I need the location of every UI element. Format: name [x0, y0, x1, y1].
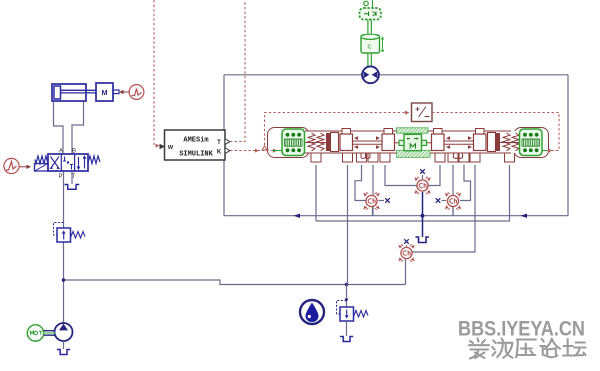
wire valve drop H2 right end — [509, 165, 511, 221]
servo valve port tab 3 — [357, 150, 367, 162]
servo valve spool rod right — [444, 141, 474, 144]
valve solenoid left — [35, 164, 49, 172]
wire valve drop to middle chamber right — [428, 165, 440, 186]
shaft rod lower — [368, 53, 371, 67]
tank T3 middle return — [416, 237, 430, 243]
svg-text:SIMULINK: SIMULINK — [179, 151, 213, 159]
servo valve spool land L2 — [382, 129, 395, 151]
servo valve spool rod left — [353, 141, 383, 144]
servo valve rod arrows left — [354, 136, 380, 149]
servo valve port tab 8 — [459, 150, 469, 162]
green arrow into left solenoid — [278, 149, 282, 153]
wire big loop top edge — [224, 74, 568, 76]
watermark BBS.IYEYA.CN — [458, 318, 585, 341]
watermark chinese char ai — [469, 339, 489, 359]
servo valve port tab 10 — [505, 150, 515, 162]
servo valve piston open left — [331, 133, 339, 152]
solenoid block right — [520, 129, 557, 156]
fluid properties icon — [300, 300, 324, 324]
junction pump branch — [62, 278, 66, 282]
chamber Ch1 closed port stub and x — [379, 198, 390, 203]
shaft MOT to pump — [44, 331, 55, 336]
junction relief branch — [345, 283, 349, 287]
arrow on return bus right — [521, 214, 528, 219]
signal dashed line from K output — [230, 149, 276, 153]
servo valve spring section right — [500, 133, 522, 151]
wire cylinder port B — [72, 101, 84, 154]
wire valve drop A1 — [315, 165, 317, 221]
watermark chinese char lun — [540, 339, 560, 357]
spool mass block M — [395, 134, 432, 150]
valve tank notch left — [361, 153, 370, 159]
svg-text:A: A — [59, 148, 63, 154]
svg-text:B: B — [72, 148, 76, 154]
valve spring right — [88, 156, 100, 164]
wire big loop right edge — [567, 75, 569, 216]
servo valve port tab 5 — [380, 150, 390, 162]
svg-text:M: M — [102, 90, 108, 97]
interface block AMESim-SIMULINK U1 — [165, 130, 226, 160]
servo valve port tab 9 — [470, 150, 480, 162]
servo valve left end cap — [268, 128, 310, 158]
force signal source F1 — [119, 85, 144, 100]
wire cylinder port A — [54, 101, 64, 154]
svg-text:P: P — [58, 174, 62, 180]
servo valve spool land R1 — [432, 129, 445, 151]
signal dashed line to W input — [154, 0, 160, 148]
servo valve spool land L1 — [340, 129, 353, 151]
relief valve RV1 — [54, 223, 86, 243]
chamber Ch1 left — [363, 192, 379, 209]
servo valve port tab 1 — [311, 150, 321, 162]
shaft rod upper — [368, 20, 371, 35]
servo valve spool land R2 — [474, 129, 487, 151]
watermark chinese char ye — [492, 339, 512, 358]
servo valve piston dark left — [326, 133, 331, 151]
chamber Ch2 middle — [414, 177, 430, 194]
junction chamber tank line — [421, 214, 425, 218]
svg-text:BBS.IYEYA.CN: BBS.IYEYA.CN — [458, 318, 585, 341]
wire middle chamber to tank — [422, 192, 424, 237]
tank T1 below valve — [65, 185, 80, 190]
servo valve right end cap — [514, 128, 549, 158]
hydraulic motor M2 — [362, 66, 379, 83]
svg-text:AMESim: AMESim — [183, 137, 208, 145]
svg-text:W: W — [168, 145, 174, 151]
servo valve port tab 2 — [343, 150, 353, 162]
wire valve drop to right chamber — [460, 165, 471, 201]
svg-text:K: K — [217, 150, 222, 156]
wire pump supply horizontal — [64, 280, 406, 285]
chamber Ch3 closed port stub and x — [436, 198, 446, 203]
servo valve rod arrows right — [446, 136, 472, 149]
wire chamber link bus — [373, 215, 454, 217]
servo valve port tab 7 — [448, 150, 458, 162]
servo valve port tab 4 — [368, 150, 378, 162]
input arrow W — [160, 144, 166, 149]
valve spring left — [35, 156, 48, 164]
wire bottom chamber to supply — [405, 259, 407, 285]
tank T2 below pump — [57, 350, 70, 355]
valve tank notch right — [454, 153, 463, 159]
servo valve main body — [301, 131, 515, 153]
valve signal source S1 — [4, 158, 31, 173]
rotary spring load K — [360, 0, 382, 20]
solenoid block left — [267, 129, 305, 156]
tank T4 below relief — [340, 337, 353, 342]
wall hatch above spool mass — [397, 128, 429, 133]
port label P — [58, 174, 62, 180]
motor prime mover MOT — [27, 325, 43, 341]
port label B — [72, 148, 76, 154]
directional valve 4/3 V1 — [48, 154, 88, 171]
wire valve drop through right chamber — [452, 165, 454, 216]
output port triangle K — [225, 148, 230, 154]
cylinder (hydraulic jack) — [52, 84, 96, 101]
port label T — [72, 174, 76, 180]
wire big loop left edge — [223, 75, 225, 216]
servo valve spring section left — [305, 133, 327, 151]
signal dashed line from T output — [230, 0, 245, 142]
chamber Ch4 closed port stub and x — [404, 239, 409, 246]
pump P1 — [55, 323, 73, 349]
wire valve drop to middle chamber left — [385, 165, 417, 186]
relief valve RV2 — [337, 285, 369, 337]
servo valve port tab 6 — [435, 150, 445, 162]
signal junction tee — [262, 146, 267, 150]
output port triangle T — [225, 139, 230, 145]
signal dashed branch up — [265, 111, 410, 145]
watermark chinese char ya — [516, 340, 536, 358]
chamber Ch3 right — [445, 192, 461, 209]
wire valve P line to pump — [63, 171, 65, 323]
wire return bus right — [453, 207, 568, 216]
wire valve T to tank — [71, 171, 73, 184]
watermark chinese char tan — [563, 339, 585, 356]
svg-text:T: T — [217, 140, 221, 146]
svg-text:T: T — [72, 174, 76, 180]
chamber Ch2 closed port stub and x — [420, 169, 425, 179]
sign inverter block +/- — [412, 103, 433, 122]
wire valve drop to left chamber — [355, 165, 366, 201]
arrow on return bus left — [294, 214, 301, 219]
port label A — [59, 148, 63, 154]
mass M1 on rod — [96, 83, 119, 101]
green arrow into right solenoid — [542, 149, 546, 153]
wire lower loop H2 — [316, 220, 510, 222]
servo valve piston open right — [488, 133, 496, 152]
wire valve drop through left chamber — [372, 165, 374, 216]
wall hatch below spool mass — [397, 150, 431, 157]
wire valve drop B1 to bottom chamber — [413, 165, 476, 252]
signal dashed line to right solenoid — [432, 113, 559, 153]
wire valve drop P supply — [347, 165, 349, 285]
wire return bus left — [224, 207, 373, 216]
svg-text:C: C — [368, 45, 372, 51]
rotary damper C — [361, 34, 384, 53]
chamber Ch4 bottom — [398, 244, 414, 261]
servo valve piston dark right — [496, 133, 501, 151]
